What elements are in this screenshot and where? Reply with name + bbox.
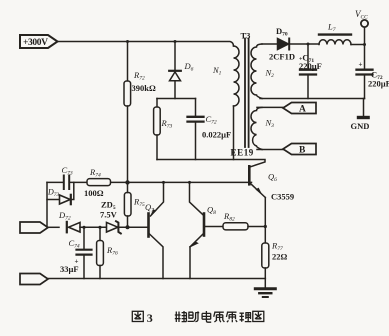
svg-text:Q7: Q7 — [145, 202, 154, 214]
svg-text:33µF: 33µF — [60, 264, 79, 274]
wire base lower rail — [48, 226, 59, 228]
svg-text:N3: N3 — [265, 118, 275, 130]
svg-text:R75: R75 — [133, 197, 145, 209]
svg-text:7.5V: 7.5V — [100, 210, 118, 220]
svg-text:EE19: EE19 — [231, 148, 254, 158]
svg-text:D72: D72 — [58, 210, 71, 222]
svg-text:D6: D6 — [184, 61, 194, 73]
svg-text:+300V: +300V — [23, 38, 48, 48]
zener diode ZD5 — [107, 221, 148, 233]
char tu — [132, 311, 143, 321]
svg-text:D70: D70 — [276, 26, 288, 38]
svg-text:220µF: 220µF — [299, 61, 322, 71]
svg-text:A: A — [299, 105, 306, 115]
svg-text:VCC: VCC — [355, 9, 368, 21]
caption figure 3 — [132, 311, 143, 321]
svg-text:T3: T3 — [241, 31, 251, 41]
svg-text:C73: C73 — [62, 165, 73, 177]
resistor R82 — [223, 223, 265, 230]
diode D70 — [278, 39, 309, 50]
wire snubber box top — [157, 98, 196, 100]
svg-text:R76: R76 — [106, 245, 118, 257]
svg-text:390kΩ: 390kΩ — [132, 83, 156, 93]
transformer core — [244, 39, 246, 148]
svg-text:2CF1D: 2CF1D — [269, 52, 295, 62]
svg-text:D73: D73 — [47, 188, 60, 199]
resistor R73 — [154, 99, 161, 160]
ground earth symbol — [255, 279, 275, 298]
resistor R77 — [262, 243, 269, 279]
svg-text:GND: GND — [351, 121, 370, 131]
wire collector line — [157, 160, 265, 167]
inductor L7 — [319, 35, 351, 45]
svg-text:R73: R73 — [161, 118, 173, 130]
node upper input tag — [20, 222, 48, 233]
svg-text:B: B — [299, 146, 306, 156]
char yuan2 — [226, 312, 237, 322]
node B tag — [257, 144, 316, 155]
wire left vertical — [46, 182, 48, 227]
svg-text:100Ω: 100Ω — [84, 188, 104, 198]
svg-text:C3559: C3559 — [271, 192, 294, 202]
wire N2 top to D70 — [262, 43, 278, 45]
node Vcc terminal — [361, 20, 368, 27]
diode D6 — [169, 42, 181, 99]
transformer secondary N2 — [251, 44, 262, 99]
wire bottom rail — [48, 278, 265, 280]
node lower input tag — [20, 274, 48, 285]
resistor R74 — [87, 179, 111, 186]
wire L7 to Vcc node — [351, 44, 365, 46]
capacitor C74 — [77, 227, 92, 278]
char fu — [175, 311, 187, 322]
svg-text:R82: R82 — [223, 211, 235, 223]
wire top rail — [58, 42, 234, 47]
svg-text:Q6: Q6 — [268, 172, 277, 184]
wire Vcc vertical — [364, 27, 366, 69]
svg-text:N1: N1 — [212, 65, 222, 77]
char tu2 — [253, 311, 264, 321]
wire output bottom rail — [260, 98, 365, 100]
transistor Q8 — [189, 182, 223, 278]
diode D73 — [47, 182, 74, 204]
svg-text:Q8: Q8 — [207, 205, 216, 217]
transistor Q6 — [249, 166, 265, 243]
diode D72 — [67, 222, 106, 232]
resistor R76 — [97, 227, 104, 278]
char yuan1 — [214, 312, 225, 322]
ground GND — [357, 99, 370, 120]
transistor Q7 — [149, 182, 164, 278]
resistor R75 — [124, 182, 131, 227]
node A tag — [257, 103, 316, 114]
capacitor C72 output — [357, 70, 373, 99]
svg-text:R74: R74 — [89, 167, 101, 179]
svg-text:N2: N2 — [265, 68, 275, 80]
capacitor C71 — [300, 44, 316, 99]
svg-text:C74: C74 — [69, 238, 80, 250]
char li — [240, 312, 252, 322]
svg-text:22Ω: 22Ω — [272, 252, 288, 262]
resistor R72 — [124, 42, 131, 183]
wire to L7 — [308, 43, 319, 45]
transformer T3 primary N1 — [234, 46, 240, 160]
char dian — [202, 311, 211, 322]
svg-text:R72: R72 — [133, 70, 145, 82]
capacitor C73 — [64, 176, 69, 190]
capacitor C72 — [188, 99, 204, 160]
svg-text:220µF: 220µF — [368, 79, 389, 89]
svg-text:R77: R77 — [271, 241, 283, 253]
svg-text:0.022µF: 0.022µF — [202, 130, 231, 140]
svg-text:3: 3 — [147, 311, 153, 325]
svg-text:L7: L7 — [327, 22, 336, 34]
wire base rail — [47, 181, 252, 183]
node +300V input tag — [20, 35, 58, 48]
svg-text:+: + — [359, 61, 363, 69]
char zhu — [188, 311, 200, 321]
transformer winding N3 — [251, 107, 262, 149]
svg-text:C72: C72 — [206, 114, 217, 126]
